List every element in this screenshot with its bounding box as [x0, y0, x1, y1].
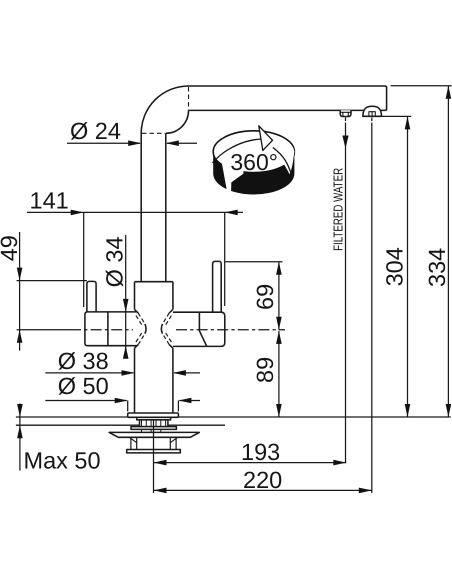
svg-text:Ø 24: Ø 24	[70, 118, 121, 144]
ticks below washer	[142, 429, 161, 432]
handle axis centerline left	[17, 329, 70, 331]
dim line 334	[447, 86, 449, 417]
arrow D50 right	[178, 398, 191, 404]
svg-text:Ø 50: Ø 50	[58, 373, 109, 399]
360 degree rotation symbol	[213, 126, 295, 197]
body corner chamfer bottom-left	[135, 345, 139, 349]
arrowheads	[17, 86, 451, 493]
arrow D50 left	[115, 398, 128, 404]
body corner chamfer top-left	[135, 309, 139, 313]
main outlet line	[371, 118, 373, 494]
bottom locking ring	[127, 450, 181, 453]
ext line 69 top	[225, 261, 283, 263]
valve waist arc right	[161, 324, 162, 334]
rotation black arrowhead	[231, 174, 244, 195]
arrow 89 top	[276, 331, 282, 344]
right handle grip left edge and cone line	[199, 312, 206, 346]
body corner chamfer bottom-right	[169, 345, 173, 349]
thread ticks	[142, 421, 166, 427]
dim line 193	[154, 462, 347, 464]
svg-text:304: 304	[381, 247, 407, 286]
dimension graphics	[17, 86, 452, 493]
svg-text:141: 141	[30, 188, 69, 214]
threaded shank	[140, 420, 168, 427]
dim line 89	[278, 331, 280, 417]
right lever	[213, 261, 222, 312]
arrow max50 bottom	[17, 425, 23, 438]
ring inner surface wedge	[267, 133, 294, 174]
arrow 141 left	[71, 210, 84, 216]
dim line 141	[27, 211, 243, 213]
deck / counter lines	[16, 417, 451, 425]
rotation band black	[213, 152, 294, 195]
arrow D34 bottom	[123, 346, 129, 359]
ring inner hole edge	[273, 148, 292, 175]
white gap behind arrowhead	[222, 162, 244, 197]
valve cone hidden lines right	[163, 313, 172, 345]
right handle neck top	[173, 311, 200, 313]
ext line 141 right	[224, 212, 226, 306]
valve cone hidden lines left	[136, 313, 145, 345]
filtered water line	[345, 118, 347, 463]
svg-text:Ø 34: Ø 34	[101, 236, 127, 287]
ext line 141 left	[83, 212, 85, 307]
svg-text:69: 69	[252, 284, 278, 310]
dome outlet inner aerator	[369, 112, 375, 117]
dim line D38	[45, 372, 200, 374]
lower tube right edge	[172, 348, 174, 413]
counter bottom line	[16, 424, 225, 426]
faucet axis below deck	[153, 421, 155, 494]
left handle grip	[85, 312, 137, 346]
thin washer plate	[131, 427, 176, 430]
arrow 334 bottom	[446, 404, 452, 417]
svg-text:Max 50: Max 50	[24, 448, 101, 474]
arrow 220 left	[154, 488, 167, 494]
arrow 49 bottom	[17, 330, 23, 343]
valve waist arc left	[145, 324, 146, 334]
left handle grip divider	[107, 312, 109, 346]
mounting bracket plate	[109, 432, 199, 437]
arrow filtered water flow	[342, 136, 348, 149]
ext line 304 top	[382, 115, 412, 117]
ext line D50 right	[177, 401, 179, 412]
svg-text:334: 334	[424, 248, 450, 287]
right handle neck bottom	[173, 345, 207, 347]
counter top line	[16, 416, 451, 418]
dim line D34	[125, 235, 127, 357]
dome outlet	[363, 106, 382, 116]
ring inner hole edge left	[213, 139, 261, 163]
dim line max50	[19, 403, 21, 470]
rotation ring top rim	[213, 131, 294, 173]
bend hidden line vertical	[188, 87, 190, 110]
arrow 304 bottom	[405, 404, 411, 417]
below deck collar	[137, 417, 171, 420]
dim line D50	[45, 400, 200, 402]
arrow 193 right	[333, 460, 346, 466]
arrow 89 bottom	[276, 404, 282, 417]
arrow 69 bottom	[276, 317, 282, 330]
spout and riser outline	[141, 86, 386, 282]
arrow 141 right	[225, 210, 238, 216]
arrow 69 top	[276, 262, 282, 275]
ext line 334 top	[391, 85, 452, 87]
arrow 220 right	[359, 488, 372, 494]
svg-text:220: 220	[243, 467, 282, 493]
handle axis centerline right	[176, 329, 285, 331]
dim line 49	[19, 232, 21, 351]
bend hidden line horizontal	[142, 132, 165, 134]
body right edge	[172, 282, 174, 310]
body corner chamfer top-right	[169, 309, 173, 313]
arrow max50 top	[17, 404, 23, 417]
svg-text:360°: 360°	[230, 149, 278, 175]
body shoulder step	[135, 281, 173, 283]
arrow 193 left	[154, 460, 167, 466]
arrow D24 right	[166, 140, 179, 146]
svg-text:89: 89	[252, 357, 278, 383]
right handle grip	[199, 312, 224, 346]
svg-text:49: 49	[0, 235, 22, 261]
arrow D38 left	[122, 370, 135, 376]
dim line 69	[278, 262, 280, 330]
arrow 304 top	[405, 116, 411, 129]
svg-text:193: 193	[241, 439, 280, 465]
body left edge	[134, 282, 136, 310]
small filtered outlet	[340, 110, 351, 116]
svg-text:FILTERED WATER: FILTERED WATER	[331, 168, 346, 251]
left lever	[87, 281, 96, 312]
bracket right leg	[170, 437, 177, 449]
ext line D50 left	[127, 401, 129, 412]
arrow D34 top	[123, 299, 129, 312]
arrow D38 right	[173, 370, 186, 376]
dim line D24	[67, 142, 197, 144]
dim line 220	[154, 489, 372, 491]
dim line 304	[407, 116, 409, 417]
rotation arrow head	[259, 126, 273, 151]
base flange	[128, 413, 179, 417]
small outlet inner line	[340, 112, 351, 116]
arrow D24 left	[128, 140, 141, 146]
ext line 49 top	[17, 280, 87, 282]
bracket left leg	[129, 437, 136, 449]
arrow 49 top	[17, 268, 23, 281]
lower tube left edge	[134, 348, 136, 413]
svg-text:Ø 38: Ø 38	[58, 348, 109, 374]
arrow 334 top	[446, 86, 452, 99]
